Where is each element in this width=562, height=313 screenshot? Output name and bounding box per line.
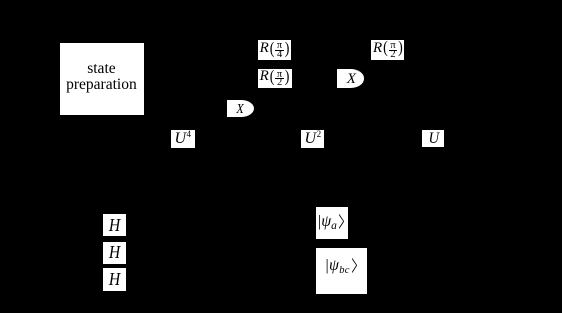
ket psi_a output box [316,207,349,239]
gate U [422,130,444,148]
Hadamard H3 [103,268,126,291]
gate R(pi/2) middle [258,69,292,89]
gate R(pi/2) top right [371,40,404,60]
gate U^4 [171,130,195,148]
X gate 1 (D-shape) [227,100,254,118]
gate U^2 [301,130,324,148]
Hadamard H2 [103,242,126,265]
state preparation box [60,43,144,115]
Hadamard H1 [103,214,126,237]
X gate 2 (D-shape) [337,69,364,87]
ket psi_bc output box [316,248,366,294]
gate R(pi/4) [258,40,291,60]
